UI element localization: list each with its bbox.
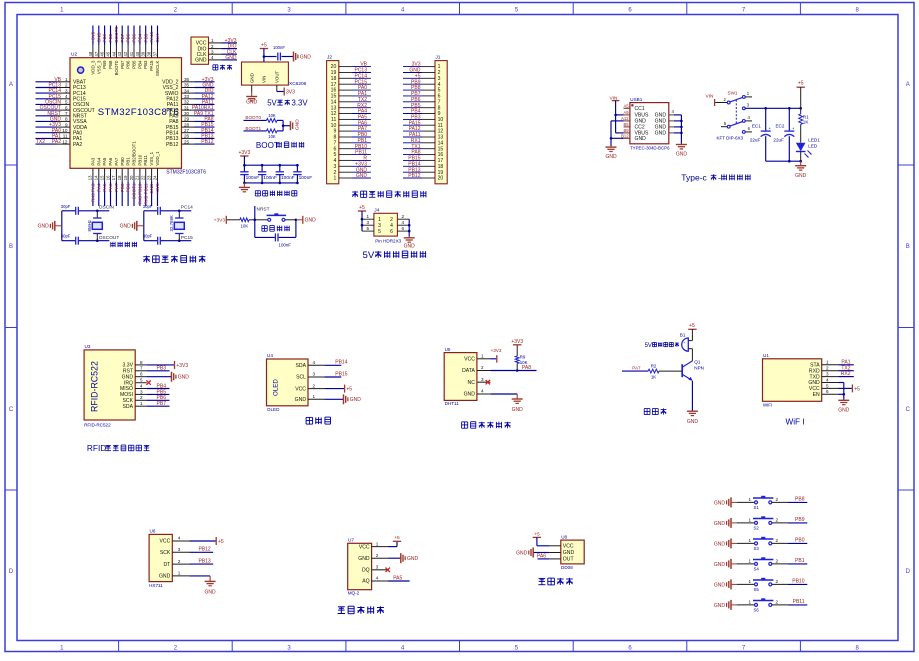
svg-text:3: 3 xyxy=(481,377,484,382)
svg-text:+5: +5 xyxy=(359,205,365,211)
svg-text:U3: U3 xyxy=(85,344,91,349)
svg-text:100nF: 100nF xyxy=(246,175,260,181)
svg-text:PB12: PB12 xyxy=(166,142,179,148)
wire SCK net PB6 xyxy=(147,399,170,401)
svg-text:2: 2 xyxy=(776,497,779,502)
wire VIN to switch xyxy=(715,102,727,104)
connector J2 header 20pin xyxy=(327,61,339,184)
svg-text:RX3 PB11: RX3 PB11 xyxy=(143,183,148,205)
wire SCL net PB15 xyxy=(324,376,341,378)
label human infrared (Chinese) xyxy=(539,577,546,579)
svg-text:RFID: RFID xyxy=(87,443,106,453)
svg-text:8: 8 xyxy=(65,117,68,122)
svg-text:8: 8 xyxy=(140,360,143,365)
svg-text:22uF: 22uF xyxy=(773,138,784,143)
svg-text:6: 6 xyxy=(402,226,405,231)
svg-text:TX2: TX2 xyxy=(36,139,45,145)
svg-text:SWCLK: SWCLK xyxy=(155,60,160,76)
USB1 pin B12 xyxy=(624,137,630,139)
svg-text:R2: R2 xyxy=(651,364,657,369)
wire STA net PA1 xyxy=(838,364,854,366)
svg-text:PB8: PB8 xyxy=(108,33,113,42)
svg-text:GND: GND xyxy=(358,556,370,562)
capacitor EC1 22uF xyxy=(765,108,767,130)
svg-text:LED1: LED1 xyxy=(808,137,820,142)
wire MOSI net PB5 xyxy=(147,393,170,395)
USB1 right GND pin xyxy=(669,114,674,116)
svg-text:Type-c: Type-c xyxy=(681,173,707,183)
svg-text:S4: S4 xyxy=(754,567,760,572)
svg-text:C: C xyxy=(906,407,911,413)
wire EN junction xyxy=(838,393,844,395)
svg-text:U5: U5 xyxy=(445,347,451,352)
wire S5 net PB10 xyxy=(772,583,788,585)
svg-text:BOOT0: BOOT0 xyxy=(114,60,119,75)
svg-text:B12: B12 xyxy=(621,133,629,138)
svg-text:TYPEC-304D-BCP6: TYPEC-304D-BCP6 xyxy=(630,145,670,150)
svg-text:PB3: PB3 xyxy=(157,366,167,372)
label reset circuit (Chinese) xyxy=(262,225,267,227)
regulator U9 XC6206 xyxy=(242,62,289,85)
svg-text:5V: 5V xyxy=(267,98,277,107)
label crystal circuit (Chinese) xyxy=(110,242,112,247)
svg-text:EC1: EC1 xyxy=(752,124,761,129)
ground filter caps xyxy=(243,183,245,188)
svg-text:DD08: DD08 xyxy=(561,565,573,570)
svg-text:32: 32 xyxy=(184,100,190,105)
svg-text:SW1: SW1 xyxy=(728,90,738,95)
svg-text:PB2/BOOT1: PB2/BOOT1 xyxy=(132,141,137,166)
svg-text:39: 39 xyxy=(141,51,146,56)
svg-text:1: 1 xyxy=(749,558,752,563)
svg-text:+: + xyxy=(768,126,771,131)
svg-text:45: 45 xyxy=(106,51,111,56)
svg-text:BOOT0: BOOT0 xyxy=(245,115,261,120)
svg-text:37: 37 xyxy=(153,51,158,56)
svg-text:3: 3 xyxy=(178,547,181,552)
svg-text:VSS_3: VSS_3 xyxy=(96,60,101,74)
svg-text:S6: S6 xyxy=(754,608,760,613)
label display (Chinese) xyxy=(306,416,313,418)
svg-text:GND: GND xyxy=(795,173,807,179)
crystal 32.768K xyxy=(178,210,181,213)
svg-text:29: 29 xyxy=(184,117,190,122)
svg-text:100nF: 100nF xyxy=(273,45,285,50)
svg-text:5: 5 xyxy=(826,383,829,388)
svg-text:TX3 PB10: TX3 PB10 xyxy=(138,183,143,204)
svg-text:B: B xyxy=(906,244,910,250)
svg-text:2: 2 xyxy=(402,214,405,219)
svg-text:17: 17 xyxy=(111,175,116,180)
svg-text:KFT DIP-6X3: KFT DIP-6X3 xyxy=(717,135,744,140)
wire 3.3V to +3V3 xyxy=(147,364,174,366)
svg-text:CC1: CC1 xyxy=(635,106,645,112)
svg-text:A5: A5 xyxy=(623,103,629,108)
capacitor C2 100nF xyxy=(261,165,263,171)
svg-text:+: + xyxy=(792,126,795,131)
connector P1 download port xyxy=(191,37,209,64)
svg-text:20: 20 xyxy=(438,176,444,182)
svg-text:12: 12 xyxy=(62,139,68,144)
svg-text:PA5: PA5 xyxy=(393,575,402,581)
svg-text:B9: B9 xyxy=(623,128,629,133)
svg-text:PA6: PA6 xyxy=(108,183,113,192)
ground crystal xyxy=(136,221,138,231)
svg-text:DHT11: DHT11 xyxy=(445,401,460,406)
transistor Q1 NPN xyxy=(681,364,683,377)
wire VCC to +5 wifi xyxy=(838,387,852,389)
wire S1 net PB8 xyxy=(772,501,788,503)
svg-text:B: B xyxy=(9,244,13,250)
svg-text:PB12: PB12 xyxy=(201,139,213,145)
label MCU minimum system (Chinese) xyxy=(143,256,150,258)
ground typec xyxy=(800,161,802,166)
svg-text:GND: GND xyxy=(120,224,132,230)
svg-text:PA15: PA15 xyxy=(149,60,154,71)
label chip filter capacitors (Chinese) xyxy=(255,190,260,192)
svg-text:+3V3: +3V3 xyxy=(511,339,523,345)
wire GND rfid xyxy=(147,376,171,378)
capacitor EC2 22uF xyxy=(788,108,790,130)
svg-text:A9: A9 xyxy=(623,110,629,115)
wire GND wifi xyxy=(838,382,844,384)
svg-text:PB7: PB7 xyxy=(157,401,167,407)
svg-text:GND: GND xyxy=(676,152,688,158)
svg-text:S5: S5 xyxy=(754,587,760,592)
wire SDA net PB14 xyxy=(324,364,341,366)
svg-text:DQ: DQ xyxy=(362,568,370,574)
svg-text:PB0: PB0 xyxy=(795,538,805,544)
svg-text:RFID-RC522: RFID-RC522 xyxy=(84,422,111,427)
svg-text:+5: +5 xyxy=(689,323,695,329)
U2 bottom pins 13-24 with wires and net labels xyxy=(92,168,94,181)
svg-text:32.768K: 32.768K xyxy=(169,215,174,231)
svg-text:GND: GND xyxy=(838,408,850,414)
module U5 DHT11 xyxy=(444,353,477,401)
svg-text:NC: NC xyxy=(468,380,476,386)
svg-text:PB11: PB11 xyxy=(793,599,805,605)
svg-text:10K: 10K xyxy=(520,360,528,365)
svg-text:14: 14 xyxy=(94,175,99,180)
svg-text:2: 2 xyxy=(481,365,484,370)
wire GND dht xyxy=(490,393,517,395)
svg-text:6: 6 xyxy=(390,229,393,235)
svg-text:GND: GND xyxy=(404,244,416,250)
svg-text:SDA: SDA xyxy=(296,363,307,369)
svg-text:OLED: OLED xyxy=(267,407,280,412)
ground USB right xyxy=(680,144,682,145)
svg-text:SCL: SCL xyxy=(296,375,306,381)
svg-text:PB5: PB5 xyxy=(132,60,137,69)
wire S4 net PB1 xyxy=(772,563,788,565)
wire junction to ground xyxy=(282,120,284,130)
svg-text:10K: 10K xyxy=(268,113,276,118)
svg-text:1: 1 xyxy=(367,214,370,219)
crystal circuit rail xyxy=(61,211,63,241)
svg-text:PB9: PB9 xyxy=(102,60,107,69)
svg-text:VCC: VCC xyxy=(563,544,574,550)
svg-text:34: 34 xyxy=(184,88,190,93)
svg-text:33: 33 xyxy=(184,94,190,99)
svg-text:PA6: PA6 xyxy=(108,157,113,166)
wire GND mq2 xyxy=(388,557,401,559)
svg-text:4: 4 xyxy=(140,383,143,388)
svg-text:VCC: VCC xyxy=(359,544,370,550)
svg-text:2: 2 xyxy=(65,83,68,88)
svg-text:1: 1 xyxy=(749,538,752,543)
wire VCC to +5 xyxy=(324,388,344,390)
USB1 pin A12 xyxy=(624,120,630,122)
module U7 MQ-2 xyxy=(348,543,372,589)
svg-text:5: 5 xyxy=(378,229,381,235)
svg-text:RX2 PA3: RX2 PA3 xyxy=(91,183,96,202)
wire DATA net PA8 xyxy=(490,370,536,372)
svg-text:PC15: PC15 xyxy=(181,235,193,241)
module U1 WiFi xyxy=(763,359,822,402)
power port +5 J4 xyxy=(358,210,366,212)
svg-text:VCC: VCC xyxy=(464,357,475,363)
svg-text:PA7: PA7 xyxy=(632,366,641,371)
USB1 pin A5 xyxy=(624,107,630,109)
ground buzzer xyxy=(691,410,693,413)
svg-text:PB1: PB1 xyxy=(126,183,131,192)
svg-text:PB3: PB3 xyxy=(143,33,148,42)
wire GND rail right xyxy=(674,114,682,116)
svg-text:2: 2 xyxy=(376,553,379,558)
svg-text:PB9: PB9 xyxy=(102,33,107,42)
svg-text:VOUT: VOUT xyxy=(274,70,279,83)
wire RST net PB3 xyxy=(147,370,170,372)
svg-text:PB10: PB10 xyxy=(792,579,804,585)
svg-text:GND: GND xyxy=(605,154,617,160)
label MCU pin breakout headers (Chinese) xyxy=(352,191,358,193)
svg-text:PB1: PB1 xyxy=(126,157,131,166)
wire GND oled xyxy=(324,398,343,400)
svg-text:PB14: PB14 xyxy=(335,360,347,366)
svg-text:PB5: PB5 xyxy=(132,33,137,42)
svg-text:2: 2 xyxy=(313,383,316,388)
J4 left pin 1 xyxy=(362,218,374,220)
svg-text:100nF: 100nF xyxy=(281,175,295,181)
wire BOOT0 xyxy=(244,119,267,121)
svg-text:2: 2 xyxy=(776,579,779,584)
svg-text:U6: U6 xyxy=(150,529,156,534)
svg-text:PB7: PB7 xyxy=(120,60,125,69)
svg-text:GND: GND xyxy=(96,32,101,43)
svg-text:PA4: PA4 xyxy=(96,183,101,192)
svg-text:46: 46 xyxy=(100,51,105,56)
svg-text:+5: +5 xyxy=(854,386,860,392)
J4 right pin 4 xyxy=(397,224,409,226)
wire left rail J4 xyxy=(361,211,363,231)
no-connect DQ xyxy=(372,569,386,571)
svg-text:OSCIN: OSCIN xyxy=(99,205,115,211)
svg-text:7: 7 xyxy=(65,111,68,116)
capacitor 100nF reset loop xyxy=(254,220,256,238)
svg-text:1: 1 xyxy=(333,176,336,182)
svg-text:U4: U4 xyxy=(267,353,273,358)
svg-text:1: 1 xyxy=(65,77,68,82)
ground crystal xyxy=(54,221,56,231)
USB1 right GND pin xyxy=(669,132,674,134)
svg-text:38: 38 xyxy=(147,51,152,56)
J4 left pin 3 xyxy=(362,224,374,226)
svg-text:5V: 5V xyxy=(645,343,652,349)
svg-text:D: D xyxy=(9,569,14,575)
svg-text:C: C xyxy=(9,407,14,413)
svg-text:3.3V: 3.3V xyxy=(292,98,309,107)
svg-text:6: 6 xyxy=(65,105,68,110)
ground USB left xyxy=(610,146,612,147)
svg-text:GND: GND xyxy=(159,574,171,580)
svg-text:PA15: PA15 xyxy=(149,31,154,42)
svg-text:VCC: VCC xyxy=(160,539,171,545)
svg-text:30: 30 xyxy=(184,111,190,116)
svg-text:+3V3: +3V3 xyxy=(91,31,96,42)
svg-text:+3V3: +3V3 xyxy=(214,218,226,224)
svg-text:PB10: PB10 xyxy=(137,154,142,165)
connector J1 header 20pin xyxy=(435,61,447,184)
svg-text:3: 3 xyxy=(211,49,214,54)
svg-text:100nF: 100nF xyxy=(279,242,292,247)
svg-text:26: 26 xyxy=(184,134,190,139)
svg-text:1: 1 xyxy=(211,38,214,43)
svg-text:PC14: PC14 xyxy=(181,205,193,211)
svg-text:6: 6 xyxy=(140,372,143,377)
ground bar xyxy=(290,121,292,130)
svg-text:43: 43 xyxy=(117,51,122,56)
wire GND hx711 xyxy=(189,575,210,577)
svg-text:PA8: PA8 xyxy=(522,365,531,371)
svg-text:PB0: PB0 xyxy=(120,157,125,166)
svg-text:1: 1 xyxy=(313,394,316,399)
svg-text:3: 3 xyxy=(65,88,68,93)
svg-text:VSS_1: VSS_1 xyxy=(149,151,154,165)
svg-text:J1: J1 xyxy=(435,54,440,60)
svg-text:PB1: PB1 xyxy=(795,558,805,564)
wire S3 net PB0 xyxy=(772,542,788,544)
wire AQ net PA5 xyxy=(388,580,410,582)
svg-text:18: 18 xyxy=(117,175,122,180)
svg-text:NPN: NPN xyxy=(694,366,704,371)
svg-text:GND: GND xyxy=(516,550,528,556)
svg-text:13: 13 xyxy=(88,175,93,180)
capacitor C1 100nF xyxy=(243,165,245,171)
svg-text:PA2: PA2 xyxy=(52,139,61,145)
connector USB1 Type-C xyxy=(630,103,669,144)
svg-text:19: 19 xyxy=(123,175,128,180)
svg-text:WiF I: WiF I xyxy=(786,418,805,427)
svg-text:8MHz: 8MHz xyxy=(87,220,92,231)
capacitor C3 100nF xyxy=(279,165,281,171)
svg-text:OSCOUT: OSCOUT xyxy=(99,235,120,241)
svg-text:PB4: PB4 xyxy=(138,33,143,42)
wire VCC hx711 to +5 xyxy=(189,540,215,542)
power port +3V3 filter xyxy=(240,155,248,157)
module U4 OLED xyxy=(267,359,309,406)
svg-text:CLK: CLK xyxy=(155,33,160,43)
svg-text:PA7: PA7 xyxy=(114,157,119,166)
svg-text:PB9: PB9 xyxy=(795,517,805,523)
svg-text:LED: LED xyxy=(808,143,818,148)
capacitor 100nF xyxy=(277,53,279,61)
ground hx711 xyxy=(209,576,211,582)
label temperature humidity sensor (Chinese) xyxy=(462,421,468,423)
svg-text:2: 2 xyxy=(776,517,779,522)
svg-text:GND: GND xyxy=(714,603,726,609)
module U8 human IR xyxy=(561,540,584,564)
svg-text:31: 31 xyxy=(184,105,190,110)
svg-text:44: 44 xyxy=(111,51,116,56)
svg-text:1: 1 xyxy=(749,579,752,584)
svg-text:PB4: PB4 xyxy=(137,60,142,69)
svg-text:DT: DT xyxy=(164,562,171,568)
svg-text:4: 4 xyxy=(65,94,68,99)
svg-text:1: 1 xyxy=(749,497,752,502)
svg-text:2: 2 xyxy=(211,44,214,49)
USB1 pin B5 xyxy=(624,126,630,128)
svg-text:3: 3 xyxy=(140,389,143,394)
svg-text:4: 4 xyxy=(313,360,316,365)
U2 top pins 48-37 with wires and net labels xyxy=(92,45,94,58)
svg-text:Pin HDR2X3: Pin HDR2X3 xyxy=(375,238,401,243)
wire S6 net PB11 xyxy=(772,604,788,606)
svg-text:4: 4 xyxy=(211,55,214,60)
J4 right pin 6 xyxy=(397,230,409,232)
svg-text:R1: R1 xyxy=(803,114,809,119)
wire TXD net RX2 xyxy=(838,376,854,378)
svg-text:3: 3 xyxy=(826,372,829,377)
svg-text:4: 4 xyxy=(826,377,829,382)
svg-text:OUT: OUT xyxy=(563,557,574,563)
wire to resistor xyxy=(227,219,240,221)
svg-text:5: 5 xyxy=(140,378,143,383)
resistor R1 1K xyxy=(800,108,802,114)
svg-text:GND: GND xyxy=(655,131,667,137)
svg-text:D: D xyxy=(906,569,911,575)
svg-text:GND: GND xyxy=(225,55,237,61)
USB1 right GND pin xyxy=(669,126,674,128)
svg-text:SCK: SCK xyxy=(160,550,171,556)
svg-text:PA6: PA6 xyxy=(537,554,546,560)
svg-text:+5: +5 xyxy=(346,387,352,393)
wire buzzer to collector xyxy=(691,349,693,361)
svg-text:PA3: PA3 xyxy=(90,157,95,166)
svg-text:GND: GND xyxy=(563,550,575,556)
svg-text:6: 6 xyxy=(826,389,829,394)
svg-text:2: 2 xyxy=(178,559,181,564)
svg-text:30pF: 30pF xyxy=(143,204,153,209)
svg-text:BOOT1: BOOT1 xyxy=(245,126,261,131)
svg-text:+5: +5 xyxy=(261,43,267,49)
svg-text:GND: GND xyxy=(305,218,317,224)
svg-text:XC6206: XC6206 xyxy=(289,81,307,87)
svg-text:GND: GND xyxy=(407,556,419,562)
svg-text:+3V3: +3V3 xyxy=(176,363,188,369)
svg-text:VCC: VCC xyxy=(295,386,306,392)
no-connect IRQ xyxy=(135,382,146,384)
svg-text:BOOT: BOOT xyxy=(256,141,279,150)
svg-text:-: - xyxy=(718,173,721,183)
svg-text:WiFi: WiFi xyxy=(763,402,772,407)
module U6 HX711 xyxy=(149,534,172,581)
wire SDA net PB7 xyxy=(147,405,170,407)
svg-text:GND: GND xyxy=(635,136,647,142)
svg-text:STM32F103C8T6: STM32F103C8T6 xyxy=(166,169,206,175)
ground of regulator xyxy=(251,85,253,91)
svg-text:A: A xyxy=(9,82,13,88)
wire switch output node xyxy=(745,107,801,109)
